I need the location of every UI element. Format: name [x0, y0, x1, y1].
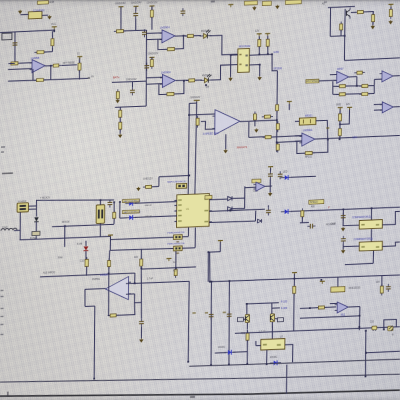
net tag SPEED	[309, 200, 324, 205]
node	[309, 307, 311, 309]
pin stub left	[174, 204, 177, 206]
diode D206 1N4007	[34, 217, 38, 222]
op-amp U201 LM358	[29, 59, 45, 73]
node	[383, 328, 385, 330]
pin ADJ	[263, 344, 267, 346]
resistor R221	[389, 7, 392, 19]
wire C220 down	[342, 244, 344, 250]
wire CN202 to bottom feed	[99, 226, 101, 237]
wire top feed	[36, 197, 114, 203]
wire out run	[62, 64, 77, 67]
resistor R249	[316, 306, 327, 309]
svg-text:480: 480	[311, 206, 316, 208]
node	[228, 280, 230, 282]
node	[140, 267, 142, 269]
node busA	[187, 361, 189, 363]
svg-text:POWER: POWER	[18, 201, 27, 203]
wire U216 in+	[330, 302, 337, 304]
wire sheet border	[0, 380, 400, 400]
transistor Q203	[270, 314, 274, 322]
pin 2 text	[178, 204, 182, 206]
node	[113, 201, 115, 203]
pin stub left	[174, 199, 177, 201]
ground	[257, 76, 261, 80]
capacitor C215	[372, 326, 377, 330]
wire to U208 in+	[271, 136, 302, 137]
svg-text:LED: LED	[283, 172, 288, 174]
wire out right rail	[344, 58, 399, 61]
resistor R220	[372, 12, 375, 24]
wire to junction	[330, 35, 345, 38]
wire stub	[255, 341, 257, 346]
wire to R224	[333, 85, 339, 87]
port BAT	[2, 33, 12, 40]
wire R219 to R220	[363, 12, 373, 15]
wire long mid rail	[210, 274, 400, 283]
svg-text:PWRCH ENC/1N: PWRCH ENC/1N	[167, 243, 184, 246]
svg-text:V: V	[328, 205, 330, 209]
wire vertical x245	[244, 186, 246, 208]
resistor R207	[150, 8, 153, 20]
wire R248 to bus	[246, 340, 248, 364]
pin stub right	[209, 210, 212, 212]
node	[359, 315, 361, 317]
svg-text:BAT+: BAT+	[113, 75, 120, 79]
wire U209 out	[240, 120, 277, 122]
wire U205 out down	[356, 77, 358, 86]
wire column x36	[35, 200, 37, 217]
resistor R214	[116, 89, 119, 101]
ground	[275, 5, 279, 9]
node	[246, 303, 248, 305]
opto-led D202	[199, 30, 211, 39]
wire ladder right	[373, 86, 375, 94]
svg-text:PWRCH ENC/1N: PWRCH ENC/1N	[167, 232, 184, 235]
diode D209	[228, 207, 232, 211]
component X1	[244, 1, 257, 5]
op-amp U208 LM2904	[299, 133, 315, 147]
op-amp U206	[379, 70, 393, 82]
wire loop top	[116, 302, 141, 315]
svg-text:LM2904: LM2904	[160, 25, 170, 29]
wire CN202 bottom	[99, 223, 101, 225]
component X2	[262, 1, 271, 6]
node	[210, 281, 212, 283]
wire stem	[269, 168, 271, 171]
power GND	[338, 107, 343, 110]
power GND/24V	[133, 6, 138, 9]
wire stair	[85, 305, 95, 307]
svg-text:GND/12V: GND/12V	[143, 178, 153, 180]
margin mark	[1, 316, 4, 317]
wire stem	[219, 242, 221, 252]
svg-text:LM358: LM358	[100, 273, 109, 277]
svg-text:24VDC: 24VDC	[218, 347, 226, 349]
component X3	[285, 0, 301, 4]
wire U215 gnd	[266, 350, 268, 364]
pin mark	[326, 127, 329, 129]
svg-text:FUSE: FUSE	[30, 238, 37, 240]
wire to U213	[343, 209, 359, 226]
wire lower feed	[52, 224, 114, 227]
wire rail to node	[208, 252, 211, 281]
ground	[268, 192, 272, 196]
wire down to out rail	[343, 36, 345, 60]
capacitor C207	[139, 319, 144, 327]
wire top right rail	[328, 6, 355, 7]
net tag MAPULSE ENC(1)	[122, 199, 139, 203]
wire R228 up	[339, 109, 341, 114]
wire R220 down	[372, 22, 374, 25]
wire D208 out	[232, 197, 245, 200]
capacitor C213	[209, 312, 214, 320]
capacitor C201	[13, 40, 18, 48]
capacitor C209	[266, 207, 271, 215]
resistor R201	[51, 36, 54, 48]
wire C216 top	[337, 277, 339, 287]
node	[339, 138, 341, 140]
svg-text:COMPARATOR(2): COMPARATOR(2)	[352, 216, 371, 220]
pin stub left	[174, 215, 177, 217]
capacitor C217	[386, 284, 391, 292]
node	[100, 199, 102, 201]
wire to U201+	[19, 62, 31, 65]
node	[230, 54, 232, 56]
power GND/12V	[149, 57, 154, 60]
label top	[211, 0, 215, 2]
net tag OPA	[252, 179, 261, 183]
node	[209, 281, 211, 283]
wire F rail right	[300, 307, 336, 309]
wire to opto led 2	[195, 79, 202, 81]
wire U203 out	[176, 79, 188, 82]
resistor R223	[354, 71, 365, 74]
resistor R230	[196, 116, 199, 128]
pin stub right	[209, 198, 212, 200]
wire feedback up	[32, 69, 34, 80]
resistor R250	[140, 257, 143, 269]
node	[271, 53, 273, 55]
capacitor C204	[142, 29, 147, 37]
wire out drop	[358, 307, 361, 331]
ground	[341, 227, 345, 231]
svg-text:CON8102: CON8102	[33, 8, 45, 12]
wire R250 down	[141, 266, 142, 318]
wire R227 out	[368, 84, 374, 86]
wire K1 left lead	[20, 13, 28, 15]
wire top rail	[0, 30, 55, 33]
op-amp U212	[253, 182, 265, 191]
node	[293, 278, 295, 280]
node	[205, 84, 207, 86]
LED D213	[224, 350, 235, 355]
ground	[388, 20, 392, 24]
svg-text:ALE MROC: ALE MROC	[43, 271, 56, 275]
wire R202 to R201	[44, 51, 53, 53]
node	[175, 267, 177, 269]
wire up to U206	[373, 79, 375, 85]
wire net drop	[120, 7, 122, 31]
wire to 12V bus	[272, 54, 278, 71]
wire R243 left	[110, 237, 173, 240]
wire rail 330	[235, 327, 400, 334]
wire rail to U213 top	[370, 208, 372, 220]
node ALE junction	[108, 273, 110, 275]
svg-text:GND/24V: GND/24V	[126, 78, 137, 81]
wire jog to U209-	[201, 121, 215, 130]
ground	[47, 15, 51, 19]
node U201 out	[50, 65, 52, 67]
diode D201	[37, 1, 48, 5]
wire Q203 base	[275, 317, 278, 320]
wire R209-R210	[119, 117, 121, 122]
wire CN pin2	[28, 208, 36, 210]
wire CN202 top	[99, 200, 101, 205]
power +12V	[77, 56, 82, 59]
svg-text:MJE15030: MJE15030	[349, 286, 361, 289]
op-amp U205 OP07	[334, 71, 349, 84]
pin stub left	[174, 220, 177, 222]
node	[64, 225, 66, 227]
wire feedback 2	[174, 81, 184, 94]
resistor R209	[119, 108, 122, 120]
wire D212 out	[291, 176, 316, 177]
pin 8 text	[204, 198, 208, 200]
wire bias column	[107, 267, 110, 316]
power	[228, 4, 233, 7]
margin mark	[0, 290, 3, 291]
wire to U209+	[189, 114, 215, 115]
pin 5	[245, 54, 247, 56]
svg-text:12: 12	[77, 52, 80, 55]
resistor R252 base box	[237, 317, 243, 321]
svg-text:LM2904: LM2904	[303, 128, 313, 132]
wire stem	[151, 58, 153, 60]
svg-text:2N5551: 2N5551	[92, 279, 101, 281]
wire mid rail 2	[300, 316, 360, 318]
wire U203 in-	[146, 83, 162, 86]
wire feedback	[175, 36, 184, 49]
wire R228-R229	[339, 121, 341, 129]
margin mark	[0, 324, 3, 325]
wire D206 bottom	[35, 222, 37, 232]
fuse F201	[32, 231, 40, 235]
resistor R236	[276, 142, 279, 153]
comparator U213	[359, 220, 382, 230]
node busA	[266, 363, 268, 365]
wire Q204 loop	[384, 319, 397, 329]
wire input	[10, 62, 15, 64]
net tag MAPULSE ENC(2)	[122, 210, 139, 214]
wire to U208 in-	[277, 141, 302, 142]
wire U214 down	[372, 251, 374, 264]
wire bias top	[108, 250, 111, 260]
svg-text:4148: 4148	[77, 244, 83, 246]
wire 12V out rail	[315, 135, 400, 139]
pin stub right	[209, 221, 212, 223]
potentiometer RP201	[299, 118, 316, 126]
svg-text:ADJ SPEED: ADJ SPEED	[306, 80, 319, 84]
wire U205 in+	[330, 74, 337, 76]
margin mark	[1, 146, 5, 148]
svg-text:12V: 12V	[346, 104, 351, 106]
node	[344, 35, 346, 37]
wire stair drop	[93, 306, 96, 379]
resistor R240	[85, 257, 89, 269]
pin 3 text	[178, 210, 182, 212]
power pin	[18, 10, 22, 14]
wire column foot	[115, 106, 146, 107]
power 12V	[257, 34, 262, 37]
wire U208 in+	[295, 135, 302, 137]
wire U213 out	[382, 211, 399, 225]
svg-text:LM2904: LM2904	[161, 70, 171, 74]
pin text	[376, 224, 379, 226]
capacitor C220	[341, 236, 346, 244]
wire Q collector	[344, 9, 346, 36]
wire U207 in+	[374, 103, 382, 105]
wire D209 out	[232, 207, 244, 210]
wire drop B	[229, 281, 230, 365]
ground	[254, 128, 258, 132]
resistor R235	[263, 135, 274, 138]
pin 7 text	[204, 210, 208, 212]
resistor R246	[301, 208, 304, 219]
wire out drop	[84, 289, 86, 306]
wire R201 top	[51, 31, 53, 37]
ground	[223, 149, 227, 153]
svg-text:Vo: Vo	[91, 75, 94, 78]
wire C209 up	[267, 205, 269, 207]
resistor R206	[34, 78, 46, 81]
svg-text:VCC: VCC	[51, 23, 57, 26]
wire U206 out	[393, 75, 400, 77]
capacitor C202	[133, 10, 138, 18]
node rail/VCC	[53, 30, 55, 32]
svg-text:C10: C10	[80, 260, 85, 262]
wire Q202 base	[243, 318, 245, 320]
wire U214 out	[382, 242, 399, 246]
wire to R225	[333, 93, 339, 95]
wire U212 out	[265, 185, 272, 187]
pin 4	[245, 64, 247, 66]
power GND	[108, 235, 113, 238]
diode D204	[125, 201, 136, 206]
wire R240 down	[86, 267, 88, 276]
node	[188, 175, 190, 177]
pin 4 text	[178, 215, 182, 217]
wire R237 out	[152, 185, 159, 187]
label C8	[176, 241, 179, 243]
pin 5 text	[178, 220, 182, 222]
resistor R232	[262, 115, 273, 118]
wire stem	[293, 274, 295, 286]
component R244 PWRCH	[174, 246, 183, 251]
node bus	[276, 119, 278, 121]
svg-text:OP07: OP07	[337, 67, 344, 71]
wire pin1 stub	[231, 54, 238, 56]
pin OUT	[277, 344, 281, 346]
wire R246 down	[301, 217, 303, 223]
node	[342, 208, 344, 210]
wire ALE rail	[40, 273, 135, 277]
wire out branch down	[248, 122, 250, 138]
wire R205 top	[78, 58, 80, 63]
power GND/12V	[194, 100, 200, 103]
wire Q to R	[351, 11, 357, 13]
op-amp U209	[212, 109, 240, 135]
margin mark	[1, 296, 4, 297]
svg-text:F-105: F-105	[281, 301, 288, 304]
svg-text:SPEED: SPEED	[310, 201, 318, 204]
capacitor C211	[278, 171, 283, 179]
power	[268, 167, 273, 170]
wire BAT rail	[112, 81, 146, 82]
wire K1 right lead	[42, 14, 48, 16]
resistor R219	[355, 10, 366, 13]
resistor R241	[108, 314, 119, 317]
node busA	[246, 363, 248, 365]
wire drop	[329, 7, 331, 36]
resistor R227	[359, 84, 370, 87]
wire R222 down	[340, 30, 342, 36]
resistor R251	[380, 284, 383, 296]
node	[258, 53, 260, 55]
svg-text:GND/24V: GND/24V	[131, 1, 142, 4]
wire R205 bottom	[78, 70, 80, 79]
svg-text:MOC8102: MOC8102	[239, 45, 251, 48]
wire D202 to U203 pin1	[209, 35, 237, 56]
wire drop2 cont	[64, 226, 66, 247]
resistor R203	[8, 62, 20, 65]
wire loop	[109, 315, 110, 317]
wire tbar down	[109, 236, 111, 250]
node	[365, 352, 367, 354]
pin 6 text	[204, 221, 208, 223]
tick	[7, 392, 8, 396]
node	[229, 210, 231, 212]
svg-text:= MC42V: = MC42V	[40, 196, 50, 199]
wire bottom rail right	[44, 78, 88, 80]
wire R247 down	[293, 294, 295, 331]
resistor R229	[338, 126, 341, 138]
wire R218 down	[267, 46, 269, 54]
wire D213 out	[233, 351, 247, 354]
capacitor C216	[331, 286, 345, 292]
power	[320, 281, 325, 284]
wire R207 down	[151, 17, 153, 29]
resistor R233	[276, 102, 279, 113]
svg-text:GND-R: GND-R	[144, 216, 152, 218]
transistor Q202	[245, 314, 249, 322]
wire U215 in	[256, 345, 261, 347]
connector CN201	[17, 203, 28, 213]
wire Q203 emitter	[271, 326, 273, 339]
wire R225-R226	[345, 93, 361, 96]
wire F-409 stub	[272, 307, 280, 309]
svg-text:GND: GND	[331, 223, 336, 225]
node busB	[365, 375, 367, 377]
node	[339, 123, 341, 125]
wire in- to loop	[134, 294, 136, 303]
node busA	[210, 364, 212, 366]
svg-text:12V: 12V	[255, 30, 260, 33]
wire U212 in	[245, 186, 256, 189]
capacitor C214	[227, 311, 232, 319]
wire CN down	[19, 212, 21, 240]
capacitor C212	[307, 224, 315, 229]
regulator U215 LM317	[261, 339, 285, 350]
